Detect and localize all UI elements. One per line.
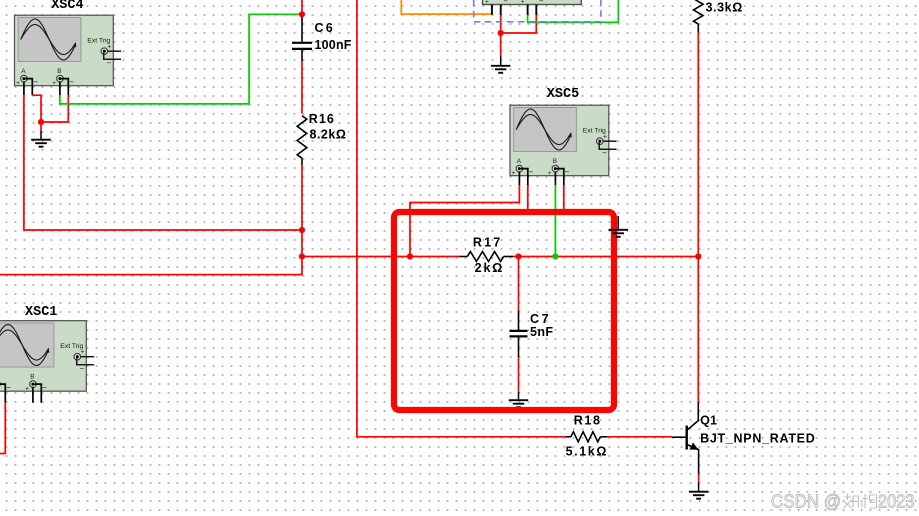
svg-text:A: A xyxy=(21,68,26,75)
svg-text:XSC1: XSC1 xyxy=(25,305,57,320)
svg-text:+: + xyxy=(603,134,607,141)
svg-text:+: + xyxy=(485,0,489,6)
svg-text:+: + xyxy=(548,170,552,177)
svg-text:R18: R18 xyxy=(574,414,602,428)
svg-text:+: + xyxy=(108,44,112,51)
svg-text:5.1kΩ: 5.1kΩ xyxy=(566,445,608,459)
svg-text:3.3kΩ: 3.3kΩ xyxy=(706,1,743,15)
svg-text:+: + xyxy=(521,0,525,6)
svg-text:−: − xyxy=(539,0,544,6)
svg-text:XSC4: XSC4 xyxy=(51,0,83,13)
svg-text:+: + xyxy=(25,386,29,393)
svg-text:R17: R17 xyxy=(473,236,503,250)
svg-text:−: − xyxy=(42,383,47,392)
svg-text:−: − xyxy=(529,167,534,176)
svg-text:A: A xyxy=(517,158,522,165)
svg-text:+: + xyxy=(52,80,56,87)
svg-text:−: − xyxy=(503,0,508,6)
svg-text:B: B xyxy=(57,68,61,75)
svg-text:B: B xyxy=(30,373,34,380)
svg-text:C6: C6 xyxy=(315,21,335,35)
svg-text:100nF: 100nF xyxy=(315,38,352,52)
svg-text:+: + xyxy=(512,170,516,177)
svg-text:−: − xyxy=(6,383,11,392)
svg-text:8.2kΩ: 8.2kΩ xyxy=(310,128,347,142)
svg-text:+: + xyxy=(16,80,20,87)
svg-text:−: − xyxy=(565,167,570,176)
svg-text:BJT_NPN_RATED: BJT_NPN_RATED xyxy=(700,432,815,446)
svg-text:R16: R16 xyxy=(309,112,335,126)
svg-text:CSDN @: CSDN @ xyxy=(771,492,841,512)
svg-text:2kΩ: 2kΩ xyxy=(475,261,505,275)
svg-text:B: B xyxy=(553,158,557,165)
svg-text:Q1: Q1 xyxy=(700,414,717,428)
svg-text:2023: 2023 xyxy=(878,492,915,512)
svg-text:−: − xyxy=(69,77,74,86)
svg-text:+: + xyxy=(81,349,85,356)
svg-text:XSC5: XSC5 xyxy=(547,87,579,102)
svg-text:C7: C7 xyxy=(530,312,551,326)
svg-text:5nF: 5nF xyxy=(530,325,553,339)
svg-text:−: − xyxy=(33,77,38,86)
